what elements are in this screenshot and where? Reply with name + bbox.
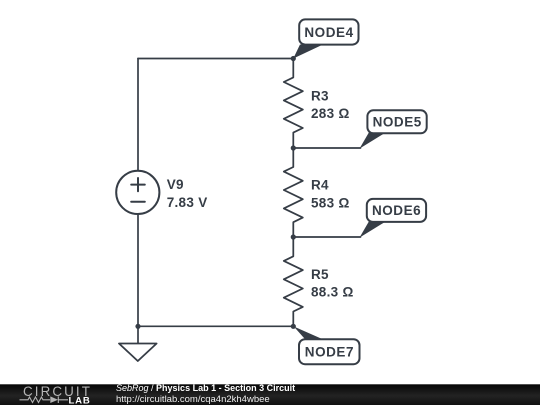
svg-text:SebRog / Physics Lab 1 - Secti: SebRog / Physics Lab 1 - Section 3 Circu… [116,383,295,393]
svg-text:http://circuitlab.com/cqa4n2kh: http://circuitlab.com/cqa4n2kh4wbee [116,394,270,405]
svg-text:88.3 Ω: 88.3 Ω [311,285,354,300]
svg-text:NODE6: NODE6 [372,203,421,218]
node NODE4 flag tail [293,45,323,59]
node NODE5 flag bubble [367,110,426,133]
node NODE5 flag tail [360,132,387,148]
wire bottom horizontal [138,325,293,327]
svg-text:283 Ω: 283 Ω [311,106,350,121]
wire top horizontal [138,58,293,60]
resistor R5 [284,237,303,326]
svg-text:NODE4: NODE4 [304,25,353,40]
V9 minus sign [131,201,145,203]
node NODE7 flag tail [294,327,325,341]
wire left vertical lower [137,215,139,327]
ground lead wire [137,326,139,343]
wire left vertical upper [137,59,139,171]
node B junction dot [291,145,296,150]
node NODE6 flag bubble [367,199,426,222]
node C junction dot [291,234,296,239]
node E junction dot [135,324,140,329]
svg-text:LAB: LAB [69,395,91,405]
svg-text:583 Ω: 583 Ω [311,195,350,210]
wire node6 horizontal [293,236,360,238]
logo diode triangle [50,396,58,403]
svg-text:NODE7: NODE7 [305,345,354,360]
svg-text:V9: V9 [167,177,184,192]
voltage source V9 circle [116,171,159,214]
node NODE4 flag bubble [299,19,358,44]
resistor R3 [284,59,303,149]
svg-text:R5: R5 [311,267,329,282]
resistor R4 [284,148,303,237]
svg-text:R4: R4 [311,178,329,193]
V9 plus sign [131,178,145,191]
svg-text:7.83 V: 7.83 V [167,195,208,210]
wire node5 horizontal [293,147,360,149]
node NODE6 flag tail [360,221,387,237]
ground symbol triangle [119,344,157,362]
svg-text:R3: R3 [311,88,329,103]
node D junction dot [291,324,296,329]
logo wire-resistor-diode glyph [20,396,69,403]
svg-text:NODE5: NODE5 [373,115,422,130]
node NODE7 flag bubble [299,339,360,364]
node A junction dot [291,56,296,61]
